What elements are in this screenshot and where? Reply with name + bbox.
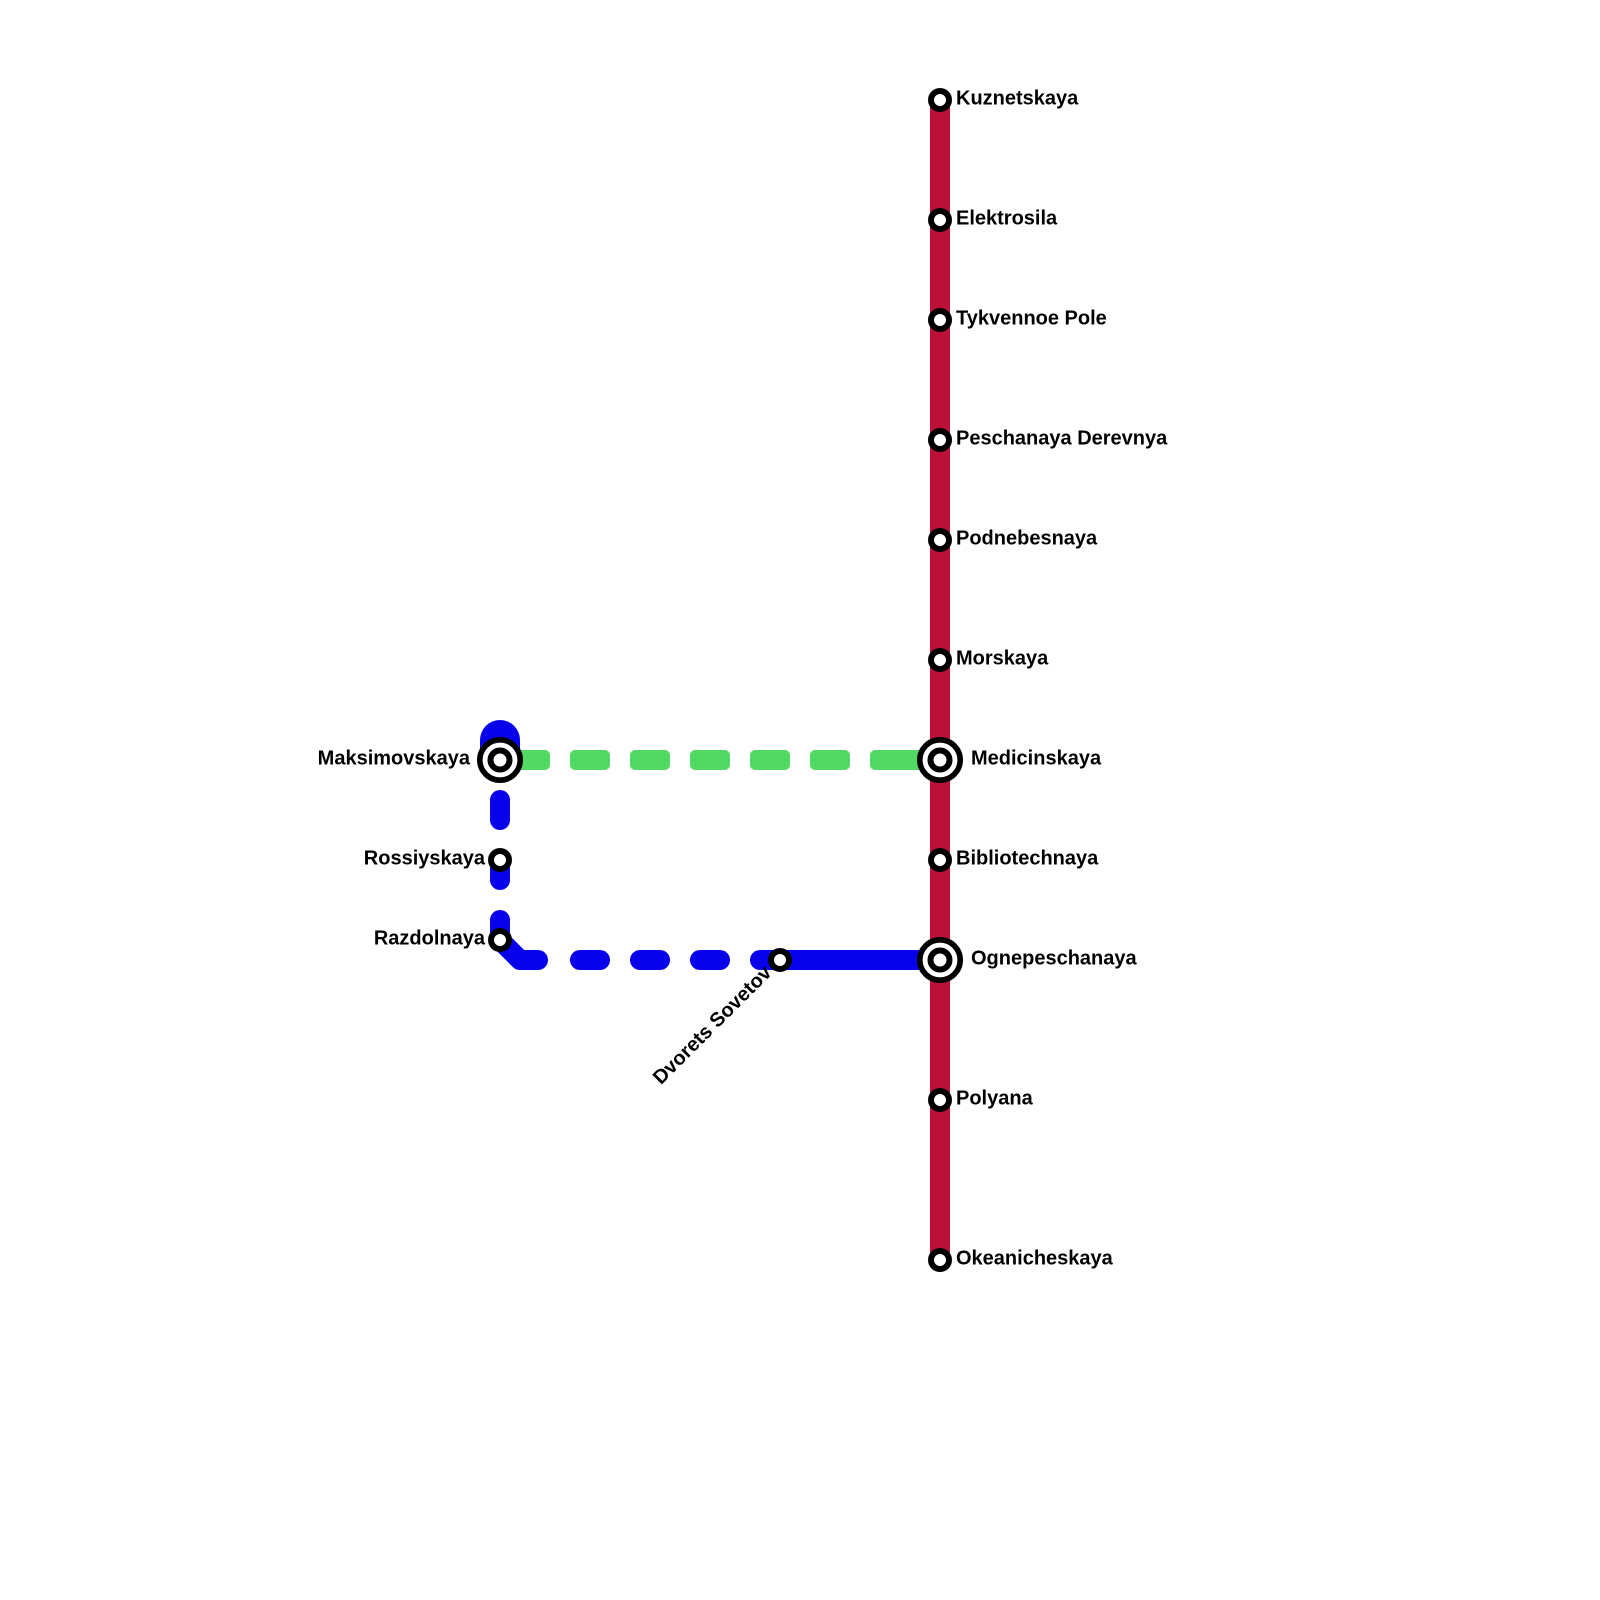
station Bibliotechnaya — [931, 851, 949, 869]
svg-text:Kuznetskaya: Kuznetskaya — [956, 88, 1079, 110]
svg-text:Morskaya: Morskaya — [956, 648, 1049, 670]
station Morskaya — [931, 651, 949, 669]
station Polyana — [931, 1091, 949, 1109]
svg-text:Polyana: Polyana — [956, 1088, 1034, 1110]
svg-text:Rossiyskaya: Rossiyskaya — [364, 848, 486, 870]
station Rossiyskaya — [491, 851, 509, 869]
blue solid segment (Dvorets Sovetov - Ognepeschanaya) — [780, 950, 940, 970]
green dashed line (Maksimovskaya - Medicinskaya) — [510, 750, 930, 770]
svg-text:Tykvennoe Pole: Tykvennoe Pole — [956, 308, 1107, 330]
station Okeanicheskaya — [931, 1251, 949, 1269]
svg-text:Podnebesnaya: Podnebesnaya — [956, 528, 1098, 550]
red line (Kuznetskaya - Okeanicheskaya) — [930, 100, 950, 1260]
station Podnebesnaya — [931, 531, 949, 549]
blue dashed horizontal segment (Razdolnaya - Dvorets Sovetov) — [570, 950, 790, 970]
svg-text:Peschanaya Derevnya: Peschanaya Derevnya — [956, 428, 1168, 450]
svg-text:Ognepeschanaya: Ognepeschanaya — [971, 948, 1138, 970]
svg-text:Maksimovskaya: Maksimovskaya — [318, 748, 471, 770]
interchange Ognepeschanaya — [920, 940, 960, 980]
svg-text:Razdolnaya: Razdolnaya — [374, 928, 486, 950]
interchange Maksimovskaya — [480, 740, 520, 780]
blue corner at Razdolnaya — [500, 940, 538, 960]
station Peschanaya Derevnya — [931, 431, 949, 449]
interchange Medicinskaya — [920, 740, 960, 780]
station Elektrosila — [931, 211, 949, 229]
station Tykvennoe Pole — [931, 311, 949, 329]
svg-text:Elektrosila: Elektrosila — [956, 208, 1058, 230]
svg-text:Medicinskaya: Medicinskaya — [971, 748, 1102, 770]
blue dashed vertical segment (Maksimovskaya - Razdolnaya) — [490, 790, 510, 950]
station Dvorets Sovetov — [771, 951, 789, 969]
station Kuznetskaya — [931, 91, 949, 109]
svg-text:Bibliotechnaya: Bibliotechnaya — [956, 848, 1099, 870]
svg-text:Okeanicheskaya: Okeanicheskaya — [956, 1248, 1114, 1270]
blue line terminus cap above Maksimovskaya — [480, 720, 520, 765]
station Razdolnaya — [491, 931, 509, 949]
